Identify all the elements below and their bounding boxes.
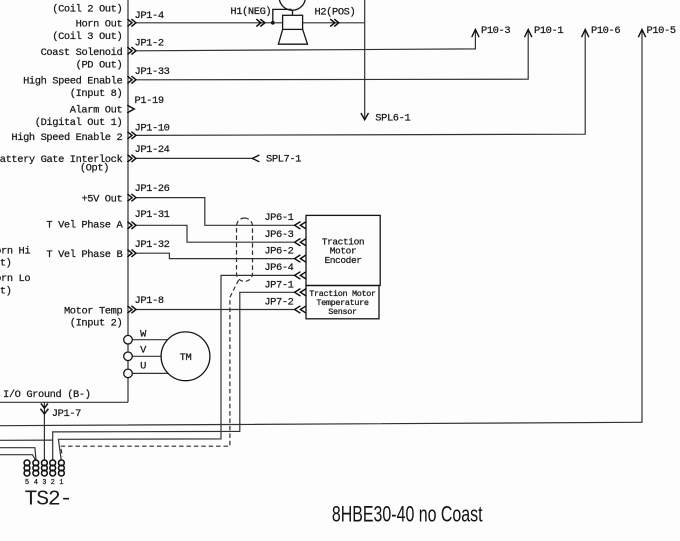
- connector pin JP1-10: [127, 132, 136, 139]
- connector pin JP6-1: [295, 222, 307, 229]
- svg-text:P10-3: P10-3: [481, 25, 510, 37]
- svg-text:P1-19: P1-19: [135, 95, 164, 107]
- wire JP1-32 to JP6-2: [136, 253, 295, 258]
- wire left edge to TS2-2 junction: [0, 439, 53, 441]
- svg-text:T Vel Phase A: T Vel Phase A: [46, 220, 123, 232]
- motor terminal V: [124, 352, 133, 361]
- motor terminal W lead: [132, 339, 167, 341]
- svg-text:Horn Out: Horn Out: [76, 18, 123, 30]
- svg-text:I/O Ground (B-): I/O Ground (B-): [3, 389, 91, 401]
- svg-text:Motor Temp: Motor Temp: [64, 305, 123, 317]
- svg-text:Horn Lo: Horn Lo: [0, 273, 30, 285]
- connector pin JP1-31: [127, 222, 136, 229]
- svg-text:JP6-2: JP6-2: [264, 246, 293, 258]
- svg-text:Coast Solenoid: Coast Solenoid: [41, 47, 123, 59]
- connector pin JP1-8: [127, 306, 136, 313]
- off-page arrow P10-5: [638, 29, 645, 37]
- svg-text:(Coil 2 Out): (Coil 2 Out): [52, 4, 122, 16]
- wire JP1-7 drop to TS2-3: [43, 402, 45, 460]
- connector pin JP6-4: [295, 272, 307, 279]
- svg-text:JP1-26: JP1-26: [135, 183, 170, 195]
- svg-text:U: U: [140, 361, 146, 373]
- wire JP6-4 to TS2-1: [58, 275, 294, 460]
- svg-text:JP1-2: JP1-2: [135, 38, 164, 50]
- off-page arrow P10-3: [472, 29, 479, 37]
- svg-text:JP1-32: JP1-32: [135, 239, 170, 251]
- wire I/O Ground (B-): [0, 401, 128, 403]
- svg-text:High Speed Enable 2: High Speed Enable 2: [11, 132, 122, 144]
- svg-text:P10-6: P10-6: [591, 25, 620, 37]
- svg-text:High Speed Enable: High Speed Enable: [23, 76, 122, 88]
- svg-text:Horn Hi: Horn Hi: [0, 245, 30, 257]
- connector pin JP1-32: [127, 250, 136, 257]
- svg-text:1: 1: [59, 479, 63, 487]
- svg-text:Sensor: Sensor: [328, 307, 357, 317]
- svg-text:3: 3: [42, 479, 46, 487]
- wire JP1-10 to P10-6: [136, 29, 585, 135]
- svg-text:JP1-8: JP1-8: [135, 295, 164, 307]
- svg-text:V: V: [140, 344, 147, 356]
- svg-text:SPL6-1: SPL6-1: [375, 112, 410, 124]
- svg-text:JP6-1: JP6-1: [264, 212, 293, 224]
- traction motor encoder box: [306, 215, 380, 285]
- svg-text:JP1-4: JP1-4: [135, 10, 164, 22]
- connector pin JP1-7 (down): [40, 403, 48, 414]
- motor terminal V lead: [132, 355, 161, 357]
- traction motor TM: [161, 332, 210, 381]
- svg-text:JP1-33: JP1-33: [135, 66, 170, 78]
- svg-text:JP1-31: JP1-31: [135, 209, 170, 221]
- horn component: [271, 0, 308, 44]
- svg-text:P10-1: P10-1: [534, 25, 563, 37]
- svg-text:2: 2: [51, 479, 55, 487]
- svg-text:TS2-: TS2-: [25, 488, 72, 512]
- svg-text:JP1-7: JP1-7: [52, 408, 81, 420]
- wire left edge to P10-5: [0, 29, 642, 425]
- svg-text:(Input 8): (Input 8): [70, 88, 123, 100]
- svg-text:T Vel Phase B: T Vel Phase B: [46, 249, 122, 261]
- svg-text:(Coil 3 Out): (Coil 3 Out): [52, 31, 122, 43]
- svg-text:+5V Out: +5V Out: [81, 193, 122, 205]
- connector pin JP7-1: [295, 289, 307, 296]
- svg-text:P10-5: P10-5: [647, 25, 676, 37]
- H1 wire chevrons: [256, 19, 265, 26]
- svg-text:JP7-1: JP7-1: [264, 280, 293, 292]
- svg-text:(Out): (Out): [0, 285, 12, 297]
- svg-text:H2(POS): H2(POS): [315, 6, 356, 18]
- wire JP1-8 to JP7-2: [136, 309, 295, 311]
- svg-text:JP6-3: JP6-3: [264, 229, 293, 241]
- connector pin JP1-24: [127, 155, 136, 162]
- svg-text:(Input 2): (Input 2): [70, 318, 123, 330]
- wire JP1-31 to JP6-3: [136, 225, 295, 242]
- svg-text:8HBE30-40 no Coast: 8HBE30-40 no Coast: [332, 503, 483, 527]
- svg-text:TM: TM: [180, 352, 192, 364]
- svg-text:JP6-4: JP6-4: [264, 262, 293, 274]
- svg-text:Alarm Out: Alarm Out: [70, 104, 123, 116]
- svg-text:4: 4: [34, 479, 38, 487]
- wire JP1-4 to horn: [136, 22, 365, 24]
- svg-text:SPL7-1: SPL7-1: [266, 154, 301, 166]
- svg-text:(Opt): (Opt): [80, 162, 109, 174]
- svg-text:H1(NEG): H1(NEG): [230, 6, 271, 18]
- cable shield (dashed stadium) around encoder wires: [237, 218, 253, 281]
- wire JP1-2 to P10-3: [136, 29, 475, 50]
- wire JP1-24 to SPL7-1: [136, 157, 252, 159]
- svg-text:JP7-2: JP7-2: [264, 297, 293, 309]
- traction motor temperature sensor box: [306, 286, 379, 319]
- svg-text:Encoder: Encoder: [324, 255, 361, 266]
- wire JP7-1 to TS2-2: [53, 292, 295, 460]
- terminal strip TS2: [24, 460, 64, 476]
- svg-text:W: W: [140, 328, 147, 340]
- motor terminal W: [124, 335, 133, 344]
- connector pin JP6-2: [295, 255, 307, 262]
- motor terminal U lead: [132, 372, 168, 374]
- H2 wire chevrons: [330, 19, 339, 26]
- wire left edge to TS2-4 upper: [0, 448, 36, 460]
- splice SPL6-1 (down arrow): [361, 113, 369, 120]
- motor terminal U: [124, 369, 133, 378]
- wire JP1-33 to P10-1: [136, 29, 528, 79]
- connector pin JP1-33: [127, 76, 136, 83]
- connector pin JP1-2: [127, 47, 136, 54]
- svg-text:(PD Out): (PD Out): [76, 60, 123, 72]
- connector pin JP1-26: [127, 194, 136, 201]
- wire SPL6-1 riser: [364, 0, 366, 120]
- connector pin JP6-3: [295, 239, 307, 246]
- svg-text:(Out): (Out): [0, 257, 12, 269]
- wire left edge to TS2-4 lower: [0, 455, 35, 460]
- off-page arrow P10-1: [525, 29, 532, 37]
- svg-text:5: 5: [25, 479, 29, 487]
- wire JP1-26 to JP6-1: [136, 198, 295, 226]
- svg-text:JP1-10: JP1-10: [135, 122, 170, 134]
- svg-text:JP1-24: JP1-24: [135, 144, 170, 156]
- off-page arrow P10-6: [582, 29, 589, 37]
- connector pin P1-19 (no wire): [127, 105, 134, 113]
- splice SPL7-1 (left arrow): [252, 155, 259, 162]
- JP1 connector bus line: [127, 0, 129, 402]
- connector pin JP7-2: [295, 306, 307, 313]
- svg-text:(Digital Out 1): (Digital Out 1): [35, 117, 123, 129]
- shield drain wire (dashed) to TS2-1: [61, 280, 239, 457]
- connector pin JP1-4: [127, 19, 136, 26]
